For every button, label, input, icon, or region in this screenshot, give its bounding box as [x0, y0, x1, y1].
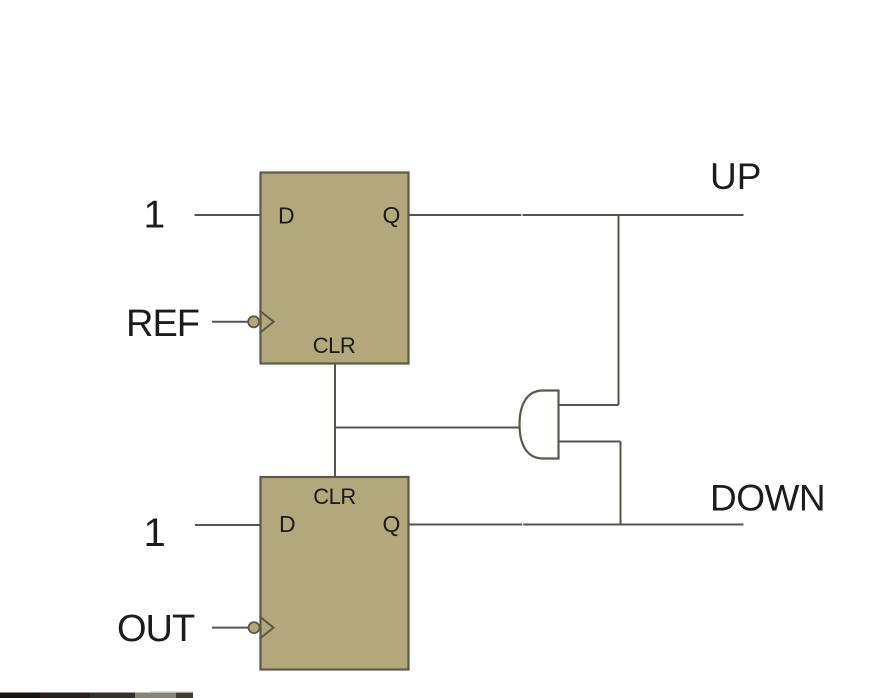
wire: REF clock input — [212, 321, 248, 323]
svg-text:UP: UP — [710, 156, 761, 197]
wire: Q of U1 to UP (segment 1) — [410, 214, 522, 216]
wire: AND gate bottom input — [559, 441, 621, 443]
clock bubble (U2 active-low clock) — [249, 622, 260, 633]
clock chevron (U1 clock input) — [260, 311, 274, 334]
svg-text:REF: REF — [126, 303, 199, 345]
partial window strip at bottom edge (decor band) — [0, 691, 193, 698]
svg-text:CLR: CLR — [313, 333, 356, 358]
AND gate U3 (left-facing) — [520, 391, 559, 459]
svg-text:D: D — [278, 203, 295, 229]
clock bubble (U1 active-low clock) — [248, 316, 259, 327]
wire: D input of U1 — [195, 214, 261, 216]
wire: vertical branch from AND input down to DOWN net — [620, 442, 622, 525]
wire: D input of U2 — [195, 524, 260, 526]
flip-flop U2 (bottom D flip-flop body) — [261, 477, 409, 670]
svg-text:Q: Q — [383, 202, 401, 228]
wire: vertical branch from UP net down to AND input — [618, 215, 620, 405]
clock chevron (U2 clock input) — [260, 616, 274, 639]
wire: AND gate output to CLR net — [335, 427, 520, 429]
svg-text:Q: Q — [383, 511, 401, 537]
svg-text:D: D — [279, 511, 296, 537]
wire: Q of U2 to DOWN (segment 1) — [410, 524, 523, 526]
svg-text:CLR: CLR — [313, 484, 356, 509]
svg-text:1: 1 — [144, 511, 166, 555]
wire: Q of U2 to DOWN (segment 2) — [523, 524, 743, 526]
flip-flop U1 (top D flip-flop body) — [261, 173, 409, 364]
wire: AND gate top input — [559, 404, 619, 406]
svg-text:DOWN: DOWN — [710, 478, 825, 519]
svg-text:OUT: OUT — [117, 608, 195, 650]
wire: OUT clock input — [212, 627, 249, 629]
wire: Q of U1 to UP (segment 2) — [523, 214, 744, 216]
wire: CLR vertical between U1 and U2 — [334, 363, 336, 477]
svg-text:1: 1 — [144, 194, 166, 237]
